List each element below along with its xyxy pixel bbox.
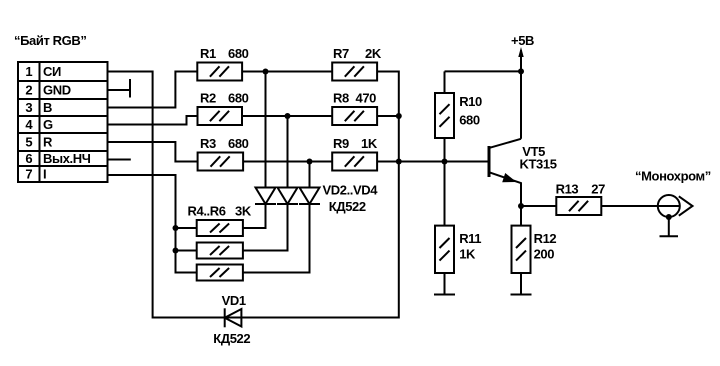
svg-text:3K: 3K (235, 204, 252, 219)
svg-text:R7: R7 (333, 46, 349, 61)
svg-text:7: 7 (25, 167, 32, 182)
svg-text:R12: R12 (534, 231, 557, 246)
svg-text:5: 5 (25, 135, 32, 150)
svg-text:R11: R11 (459, 231, 481, 246)
svg-text:R4..R6: R4..R6 (188, 204, 226, 219)
svg-text:200: 200 (534, 247, 555, 262)
svg-text:R8: R8 (333, 91, 349, 106)
svg-text:R1: R1 (200, 46, 216, 61)
svg-text:GND: GND (43, 83, 71, 98)
svg-text:СИ: СИ (43, 64, 61, 79)
svg-text:R9: R9 (333, 136, 349, 151)
svg-text:1K: 1K (459, 247, 476, 262)
svg-text:КД522: КД522 (213, 331, 250, 346)
svg-text:1K: 1K (361, 136, 378, 151)
svg-text:VD1: VD1 (222, 293, 246, 308)
svg-text:Вых.НЧ: Вых.НЧ (43, 151, 91, 166)
svg-text:VD2..VD4: VD2..VD4 (323, 183, 379, 198)
svg-text:680: 680 (228, 91, 249, 106)
svg-text:R2: R2 (200, 91, 216, 106)
svg-text:“Байт RGB”: “Байт RGB” (14, 33, 86, 48)
svg-text:4: 4 (25, 117, 33, 132)
svg-text:I: I (43, 167, 46, 182)
svg-text:“Монохром”: “Монохром” (635, 168, 711, 183)
svg-text:680: 680 (459, 113, 480, 128)
svg-text:+5В: +5В (511, 33, 534, 48)
svg-text:R: R (43, 135, 53, 150)
svg-text:2: 2 (25, 83, 32, 98)
svg-text:B: B (43, 100, 52, 115)
svg-text:470: 470 (356, 91, 377, 106)
svg-text:27: 27 (591, 181, 605, 196)
svg-text:680: 680 (228, 46, 249, 61)
svg-text:G: G (43, 117, 53, 132)
svg-text:6: 6 (25, 151, 32, 166)
svg-text:КД522: КД522 (329, 199, 366, 214)
svg-text:1: 1 (25, 64, 32, 79)
svg-text:R3: R3 (200, 136, 216, 151)
svg-text:680: 680 (228, 136, 249, 151)
svg-text:3: 3 (25, 100, 32, 115)
svg-text:2K: 2K (365, 46, 382, 61)
svg-text:R13: R13 (556, 181, 579, 196)
svg-text:R10: R10 (459, 94, 482, 109)
svg-text:KT315: KT315 (520, 156, 557, 171)
